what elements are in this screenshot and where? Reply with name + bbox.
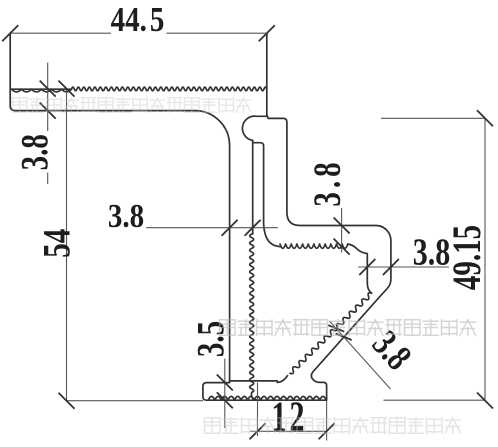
svg-text:49.15: 49.15 [444, 225, 489, 290]
fillet from staircase into base top edge [277, 376, 287, 383]
svg-text:3.8: 3.8 [306, 158, 349, 206]
dim 12 dimension line [250, 430, 327, 432]
dim 3.8 (flange thickness) line [47, 63, 49, 185]
dim 3.8 (hook wall) line [358, 266, 449, 268]
dim 3.8 (arm thickness) line [341, 208, 343, 253]
dim 49.15 line [484, 118, 486, 400]
tick 49.15 top [477, 110, 493, 126]
dim 3.8 (stem width) line [146, 227, 278, 229]
dim 49.15 top extension [381, 117, 485, 119]
base top edge left of stem, left rounded end, bottom baseline [203, 383, 327, 401]
base top edge right of stem [230, 380, 278, 382]
tick 3.8 arm bottom [334, 239, 350, 255]
top flange right edge (also 44.5 extension line) down to hook [267, 33, 391, 400]
top flange serrated top edge (sine part) [72, 87, 267, 91]
stem right serrated edge [250, 234, 254, 392]
dim 3.5 line [224, 359, 226, 429]
tick 3.5 bottom [217, 392, 233, 408]
tick 44.5 left [2, 25, 18, 41]
tick 3.8 flange bottom [40, 103, 56, 119]
strut upper-left wavy (staircase) edge [290, 293, 372, 374]
dim 49.15 bottom extension [384, 399, 486, 401]
shelf under nub + hook inner wall + fillet into arm underside [253, 143, 282, 247]
tick 49.15 bottom [477, 393, 493, 409]
tick 3.8 strut upper [328, 325, 344, 331]
tick 3.8 stem left [222, 220, 238, 236]
tick 3.5 top [217, 375, 233, 391]
svg-text:3.8: 3.8 [13, 134, 56, 170]
arm underside finger serration [280, 244, 348, 248]
dim 3.8 (strut) diagonal line [330, 321, 391, 389]
watermark row 3 [205, 418, 461, 434]
tick 12 left [250, 423, 266, 439]
dim 44.5 dimension line [10, 32, 267, 34]
tick 54 bottom [59, 393, 75, 409]
tick 3.8 arm top [334, 218, 350, 234]
tick 3.8 stem right [245, 220, 261, 236]
tick 3.8 wall right [383, 259, 399, 275]
top flange serrated top edge (left straight part with scallop dips) [10, 88, 71, 90]
dim 54 line [66, 89, 68, 401]
tick 3.8 strut lower [336, 334, 352, 340]
base bottom scallop serration [208, 396, 326, 400]
tick 12 right [319, 423, 335, 439]
dim 54 bottom extension [67, 400, 204, 402]
top flange: left edge, bottom edge, big fillet into stem left edge [10, 33, 229, 382]
svg-text:44.5: 44.5 [111, 0, 165, 39]
dim 12 left extension [257, 383, 259, 437]
clamp nub (round bump) at top of stem [242, 116, 266, 141]
tick 54 top [59, 81, 75, 97]
tick 3.8 flange top [40, 81, 56, 97]
step from serration down to inner wall, inner wall, elbow into strut [348, 244, 372, 293]
svg-text:54: 54 [35, 229, 78, 258]
watermark row 1 [12, 98, 250, 112]
tick 3.8 wall left [359, 259, 375, 275]
svg-text:3.5: 3.5 [189, 321, 232, 357]
stem right edge (straight upper part) [252, 140, 254, 234]
svg-text:3.8: 3.8 [108, 197, 144, 234]
watermark row 2 [220, 320, 476, 336]
dim 12 right extension [326, 400, 328, 440]
svg-text:3.8: 3.8 [364, 323, 419, 378]
label 3.8 strut [364, 323, 419, 378]
tick 44.5 right [259, 25, 275, 41]
